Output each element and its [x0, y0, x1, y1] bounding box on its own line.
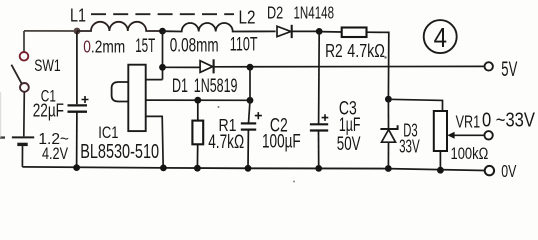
- junction IC ground: [160, 165, 167, 172]
- wiper arrow VR1: [447, 132, 484, 139]
- label D3: [403, 119, 417, 140]
- label R2: [325, 40, 343, 61]
- resistor R2: [342, 28, 367, 38]
- svg-text:4: 4: [434, 22, 447, 53]
- label C2: [270, 116, 288, 137]
- op-amp IC1 package: [112, 65, 146, 131]
- wire 5V rail: [214, 65, 485, 67]
- svg-text:0 ~33V: 0 ~33V: [482, 108, 535, 131]
- capacitor C3: [310, 114, 328, 168]
- node LX tap: [159, 28, 166, 35]
- label C1: [41, 88, 56, 106]
- wire D1 anode: [163, 66, 201, 68]
- svg-text:L1: L1: [70, 6, 86, 26]
- label D1: [172, 76, 188, 97]
- wire C3 branch vertical: [318, 32, 321, 124]
- label C3: [339, 98, 357, 119]
- node regulator: [385, 96, 392, 103]
- node C1 top: [74, 28, 81, 35]
- terminal 5V: [485, 62, 493, 70]
- junction R1 ground: [194, 165, 201, 172]
- wire IC pin LX: [146, 79, 163, 81]
- label VR1: [456, 112, 481, 132]
- wire D2 cathode: [291, 30, 319, 32]
- svg-text:22µF: 22µF: [33, 101, 64, 121]
- potentiometer VR1: [434, 111, 447, 170]
- label 5V: [501, 58, 517, 81]
- node D1 cathode: [247, 64, 254, 71]
- label 1.2~4.2V: [38, 131, 69, 163]
- svg-text:100µF: 100µF: [262, 132, 301, 153]
- label 33V: [399, 136, 420, 157]
- wire node to R2: [319, 31, 342, 33]
- svg-text:1N5819: 1N5819: [194, 76, 238, 97]
- svg-text:D1: D1: [172, 76, 188, 97]
- terminal 0~33V: [484, 131, 492, 139]
- wire IC GND pin: [146, 116, 164, 167]
- wire output sense vertical: [249, 67, 251, 123]
- label 0.2mm: [83, 37, 125, 57]
- label IC1: [98, 123, 118, 142]
- svg-text:L2: L2: [239, 8, 256, 28]
- label 1µF: [339, 115, 361, 136]
- diode D2: [277, 25, 292, 38]
- svg-text:15T: 15T: [135, 36, 155, 57]
- label 1N4148: [294, 2, 335, 22]
- capacitor C1: [68, 31, 89, 167]
- junction C1 ground: [73, 164, 80, 171]
- wire ground rail: [22, 167, 484, 171]
- node D2/R2/C3: [316, 28, 323, 35]
- wire switch to battery: [23, 92, 26, 136]
- wire LX vertical: [162, 31, 164, 79]
- label L2: [239, 8, 256, 28]
- label 0.08mm: [170, 35, 219, 56]
- junction VR1 ground: [437, 167, 444, 174]
- label 1N5819: [194, 76, 238, 97]
- svg-text:5V: 5V: [501, 58, 517, 81]
- junction D3 ground: [385, 165, 392, 172]
- wire R2 to right node: [367, 32, 389, 99]
- label R1 4.7kΩ: [208, 132, 244, 153]
- label 100µF: [262, 132, 301, 153]
- wire switch drop: [23, 31, 25, 52]
- wire battery to ground rail: [21, 146, 23, 167]
- wire top-left horizontal: [24, 30, 77, 32]
- node LX / D1 anode: [159, 64, 166, 71]
- inductor L1 0.2mm 15T: [77, 22, 163, 31]
- label 22µF: [33, 101, 64, 121]
- battery B1: [12, 137, 34, 144]
- label SW1: [34, 56, 60, 75]
- label 0V: [501, 161, 516, 181]
- label L1: [70, 6, 86, 26]
- label 100kΩ: [451, 144, 489, 163]
- wire IC VOUT pin: [146, 99, 250, 101]
- figure number 4: [424, 20, 457, 53]
- terminal 0V: [485, 166, 494, 175]
- svg-text:SW1: SW1: [34, 56, 60, 75]
- svg-text:R2: R2: [325, 40, 343, 61]
- svg-text:BL8530-510: BL8530-510: [80, 141, 159, 163]
- resistor R1: [192, 100, 203, 168]
- node R1 top: [194, 97, 201, 104]
- label D2: [267, 3, 283, 23]
- svg-text:100kΩ: 100kΩ: [451, 144, 489, 163]
- label R2 4.7kΩ: [347, 40, 385, 61]
- svg-text:0V: 0V: [501, 161, 516, 181]
- svg-text:50V: 50V: [337, 134, 361, 155]
- junction C3 ground: [315, 165, 322, 172]
- label 15T: [135, 36, 155, 57]
- svg-text:4.7kΩ: 4.7kΩ: [347, 40, 385, 61]
- svg-text:0.2mm: 0.2mm: [83, 37, 125, 57]
- zener diode D3: [380, 99, 397, 168]
- transformer core dashed: [91, 13, 234, 15]
- svg-text:110T: 110T: [230, 35, 258, 56]
- svg-text:D2: D2: [267, 3, 283, 23]
- label R1: [219, 115, 237, 135]
- switch SW1: [11, 52, 28, 92]
- svg-text:0.08mm: 0.08mm: [170, 35, 219, 56]
- wire node to VR1 top: [388, 99, 442, 111]
- svg-text:4.7kΩ: 4.7kΩ: [208, 132, 244, 153]
- svg-text:VR1: VR1: [456, 112, 481, 132]
- label 0~33V: [482, 108, 535, 131]
- diode D1: [200, 59, 214, 73]
- svg-text:1µF: 1µF: [339, 115, 361, 136]
- label 50V: [337, 134, 361, 155]
- junction C2 ground: [245, 165, 252, 172]
- label 110T: [230, 35, 258, 56]
- svg-text:IC1: IC1: [98, 123, 118, 142]
- inductor L2 0.08mm 110T: [163, 23, 276, 32]
- svg-text:1N4148: 1N4148: [294, 2, 335, 22]
- capacitor C2: [241, 112, 262, 168]
- svg-text:33V: 33V: [399, 136, 420, 157]
- node C2 top: [247, 97, 254, 104]
- label BL8530-510: [80, 141, 159, 163]
- svg-text:4.2V: 4.2V: [42, 145, 68, 163]
